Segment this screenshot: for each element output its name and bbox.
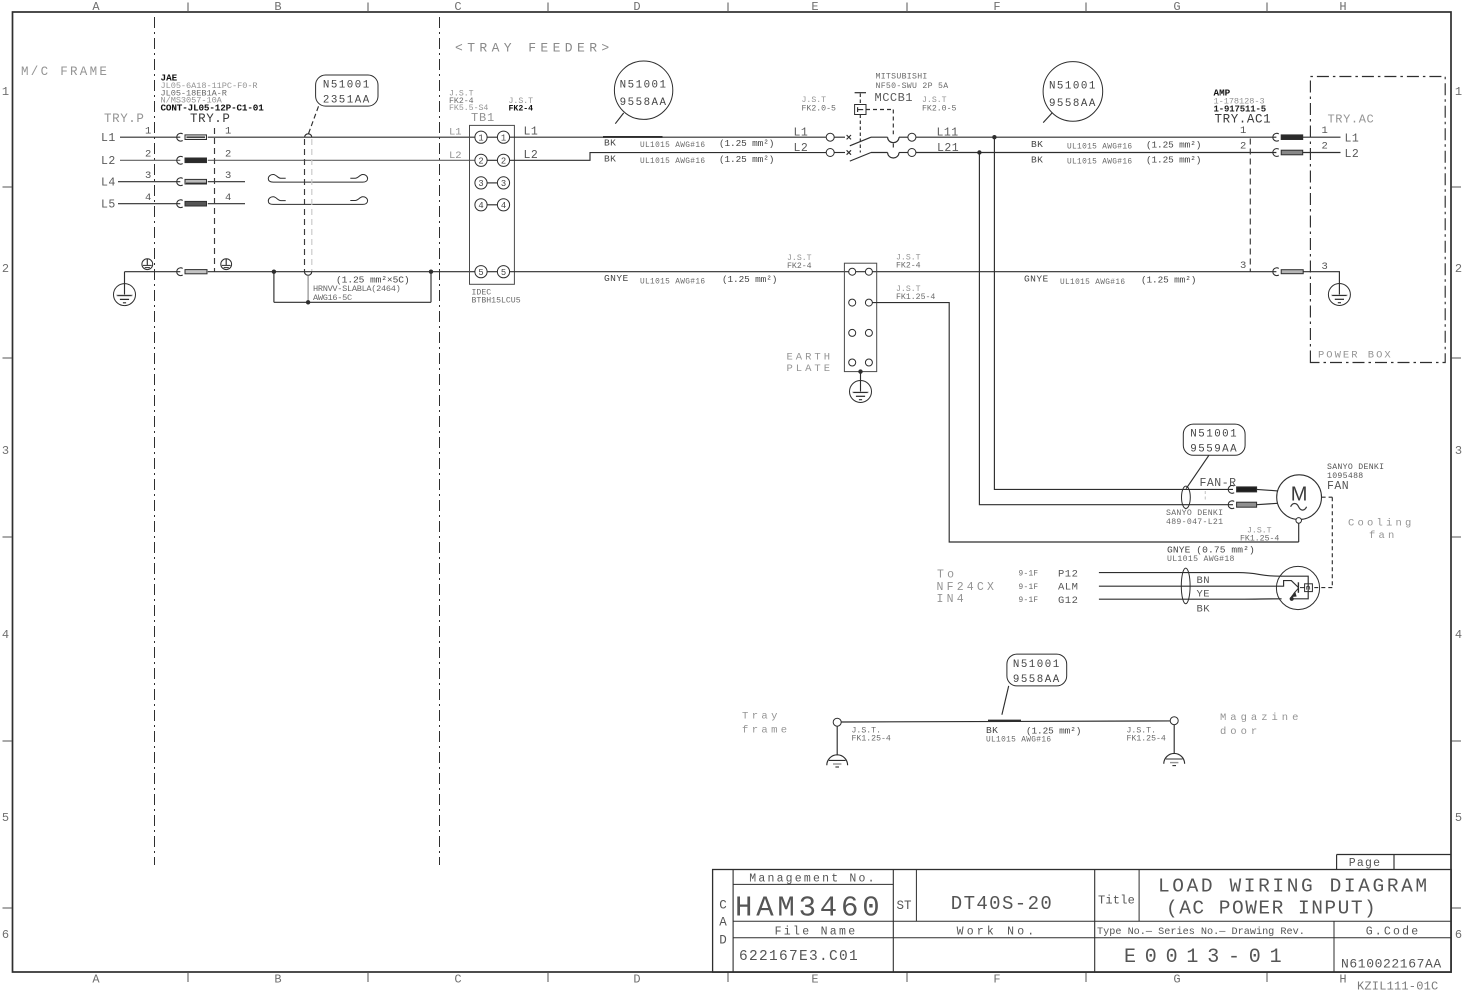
svg-text:G12: G12 [1058,595,1078,607]
svg-text:BK: BK [1031,139,1043,150]
svg-text:Management No.: Management No. [749,872,876,885]
svg-text:L1: L1 [524,126,539,139]
svg-text:4: 4 [478,201,483,211]
leader from balloon 2351AA (dashed) [309,106,319,133]
spare wire hook row L5 [268,197,367,205]
svg-text:L2: L2 [449,150,462,162]
svg-text:Type No.— Series No.— Drawing: Type No.— Series No.— Drawing Rev. [1097,926,1305,938]
svg-text:TRY.P: TRY.P [104,112,145,126]
svg-text:(1.25 mm²): (1.25 mm²) [719,138,774,149]
svg-text:PLATE: PLATE [787,363,834,375]
svg-text:BK: BK [604,137,616,148]
svg-text:5: 5 [1455,811,1462,825]
svg-text:1: 1 [225,126,231,138]
bond wire (tray frame to magazine door) [833,718,841,726]
svg-text:M: M [1291,484,1308,506]
svg-text:4: 4 [1455,628,1462,642]
svg-text:frame: frame [742,724,791,736]
svg-text:A: A [92,973,100,987]
svg-text:3: 3 [1455,444,1462,458]
balloon N51001 9558AA (bottom) [1007,654,1067,686]
PE symbol (feeder side) [221,259,232,270]
wire L11 down to FAN-R [994,137,1233,489]
svg-text:3: 3 [1322,261,1328,273]
svg-text:BK: BK [1031,154,1043,165]
svg-text:G.Code: G.Code [1366,925,1421,938]
svg-text:IN4: IN4 [937,593,967,606]
node L21 [977,150,981,154]
connector TRY.P pin E [177,268,183,276]
wire label underline (tray BK) [988,720,1021,722]
svg-text:6: 6 [2,928,9,942]
svg-text:L2: L2 [1345,148,1360,161]
connector TRY.P pin 3 [177,178,183,186]
svg-text:6: 6 [1455,928,1462,942]
TB1 terminal 3 [475,177,487,189]
connector TRY.P pin 2 [177,156,183,164]
svg-text:489-047-L21: 489-047-L21 [1166,518,1223,527]
svg-text:L1: L1 [101,132,116,145]
connector TRY.P pin 4 [177,200,183,208]
wire L21 down to FAN-R [979,153,1233,505]
svg-text:(1.25 mm²): (1.25 mm²) [1146,155,1201,166]
svg-text:FK2-4: FK2-4 [509,105,534,114]
svg-text:F: F [993,0,1000,14]
cable spec label box [273,272,275,303]
svg-text:UL1015 AWG#16: UL1015 AWG#16 [1060,279,1125,287]
svg-text:L11: L11 [937,127,959,140]
svg-text:UL1015 AWG#16: UL1015 AWG#16 [640,278,705,286]
svg-text:9-1F: 9-1F [1019,571,1039,579]
svg-text:GNYE (0.75 mm²): GNYE (0.75 mm²) [1167,544,1255,555]
svg-text:POWER BOX: POWER BOX [1318,350,1393,362]
svg-text:B: B [274,973,281,987]
svg-text:<TRAY FEEDER>: <TRAY FEEDER> [455,41,614,56]
svg-text:G: G [1173,973,1180,987]
svg-text:(AC POWER INPUT): (AC POWER INPUT) [1166,898,1377,920]
svg-text:L1: L1 [794,127,809,140]
svg-text:2351AA: 2351AA [323,94,371,106]
svg-text:L5: L5 [101,199,116,212]
balloon N51001 9559AA [1183,424,1245,455]
svg-text:UL1015 AWG#16: UL1015 AWG#16 [1067,159,1132,167]
svg-text:GNYE: GNYE [604,273,629,284]
cooling fan outline link (dashed) [1322,496,1333,498]
svg-text:C: C [719,898,727,912]
svg-text:FAN: FAN [1327,480,1349,493]
svg-text:YE: YE [1197,588,1211,600]
svg-text:FK1.25-4: FK1.25-4 [852,735,891,744]
connector TRY.AC pin 3 [1273,268,1279,276]
svg-text:2: 2 [1455,262,1462,276]
svg-text:FK1.25-4: FK1.25-4 [896,293,935,302]
svg-text:5: 5 [2,811,9,825]
svg-text:P12: P12 [1058,568,1078,580]
balloon N51001 9558AA [614,61,672,119]
svg-text:Page: Page [1349,857,1381,870]
svg-text:2: 2 [225,149,231,161]
svg-text:ALM: ALM [1058,582,1078,594]
svg-text:1: 1 [2,85,9,99]
svg-text:AWG16-5C: AWG16-5C [313,293,352,303]
svg-text:9-1F: 9-1F [1019,597,1039,605]
svg-text:3: 3 [501,179,506,189]
PE wire TRY.P pin E [125,271,181,273]
svg-text:UL1015 AWG#16: UL1015 AWG#16 [640,142,705,150]
wire label underline (L1 BK) [603,136,663,138]
svg-text:BTBH15LCU5: BTBH15LCU5 [472,297,521,306]
fan alarm sensor (open collector) [1276,566,1319,609]
svg-text:L2: L2 [101,155,116,168]
svg-text:TRY.P: TRY.P [190,112,231,126]
svg-text:UL1015 AWG#16: UL1015 AWG#16 [640,158,705,166]
wire L1 (TB1 to MCCB1) [510,136,827,138]
svg-text:C: C [454,973,461,987]
svg-text:N51001: N51001 [323,80,371,92]
svg-text:H: H [1339,0,1346,14]
svg-text:1: 1 [1455,85,1462,99]
svg-text:NF50-SWU 2P 5A: NF50-SWU 2P 5A [876,82,949,91]
TB1 terminal 4 [475,199,487,211]
svg-text:DT40S-20: DT40S-20 [951,893,1053,915]
TRAY FEEDER boundary (dash-dot) [439,17,441,865]
svg-text:Tray: Tray [742,711,781,723]
svg-text:FK2-4: FK2-4 [896,262,921,271]
svg-text:D: D [633,0,640,14]
harness run (dashed pair) [305,134,312,137]
svg-text:3: 3 [2,444,9,458]
svg-text:1: 1 [145,126,151,138]
svg-text:FK1.25-4: FK1.25-4 [1240,534,1279,543]
breaker MCCB1 pole L1 [826,133,834,141]
title block [1337,854,1452,856]
svg-text:UL1015 AWG#18: UL1015 AWG#18 [1167,555,1235,564]
svg-text:BN: BN [1197,575,1211,587]
svg-text:Work No.: Work No. [957,925,1038,938]
TB1 terminal 2 [475,154,487,166]
svg-text:Cooling: Cooling [1348,518,1415,530]
spare wire hook row L4 [268,174,367,182]
harness oval NF24CX [1181,568,1190,604]
TB1 terminal 5 [475,266,487,278]
svg-text:Magazine: Magazine [1220,712,1302,724]
svg-text:BK: BK [1197,604,1211,616]
svg-text:N51001: N51001 [1190,429,1238,441]
svg-text:(1.25 mm²): (1.25 mm²) [722,274,777,285]
svg-text:9-1F: 9-1F [1019,584,1039,592]
svg-text:N610022167AA: N610022167AA [1341,956,1442,971]
svg-text:fan: fan [1369,530,1398,542]
svg-text:ST: ST [897,899,913,913]
svg-text:L1: L1 [449,127,462,139]
svg-text:1: 1 [478,133,483,143]
svg-text:3: 3 [478,179,483,189]
svg-text:MITSUBISHI: MITSUBISHI [876,73,928,82]
svg-text:E: E [811,973,818,987]
svg-text:3: 3 [145,170,151,182]
svg-text:SANYO DENKI: SANYO DENKI [1166,509,1223,518]
svg-text:1: 1 [1322,125,1328,137]
balloon N51001 2351AA [316,75,378,106]
svg-text:2: 2 [1322,141,1328,153]
svg-text:2: 2 [1240,141,1246,153]
svg-text:3: 3 [225,170,231,182]
ground (tray frame) [836,726,838,755]
svg-text:C: C [454,0,461,14]
svg-text:N51001: N51001 [1013,659,1061,671]
svg-text:F: F [993,973,1000,987]
svg-text:622167E3.C01: 622167E3.C01 [739,949,859,965]
M/C FRAME boundary (dash-dot) [154,17,156,865]
svg-text:BK: BK [604,153,616,164]
TRY.P boundary (dashed) [214,128,216,272]
breaker MCCB1 pole L2 [826,149,834,157]
svg-text:To: To [937,569,957,582]
svg-text:9559AA: 9559AA [1190,444,1238,456]
svg-text:3: 3 [1240,260,1246,272]
svg-text:FK2.0-5: FK2.0-5 [922,105,956,114]
breaker MCCB1 operator [855,92,866,94]
svg-text:M/C FRAME: M/C FRAME [21,65,109,79]
svg-text:SANYO DENKI: SANYO DENKI [1327,463,1384,472]
ground (power box) [1328,284,1350,306]
svg-text:GNYE: GNYE [1024,274,1049,285]
svg-text:UL1015 AWG#16: UL1015 AWG#16 [1067,143,1132,151]
svg-text:4: 4 [145,192,151,204]
svg-text:D: D [633,973,640,987]
TB1 terminal 1 [475,131,487,143]
svg-text:E: E [811,0,818,14]
svg-text:4: 4 [225,192,231,204]
svg-text:L2: L2 [794,142,809,155]
svg-text:A: A [92,0,100,14]
svg-text:2: 2 [478,156,483,166]
connector FAN-R pin 2 [1228,501,1234,509]
svg-text:L21: L21 [937,142,959,155]
wire L2 (TB1 to MCCB1, with jog) [510,153,827,161]
harness oval FAN-R [1182,486,1191,508]
svg-text:KZIL111-01C: KZIL111-01C [1357,980,1438,992]
TRY.AC1 boundary (dashed) [1249,139,1251,272]
svg-text:5: 5 [478,268,483,278]
svg-text:G: G [1173,0,1180,14]
svg-text:UL1015 AWG#16: UL1015 AWG#16 [986,736,1051,744]
ground (machine frame) [124,272,126,284]
connector FAN-R pin 1 [1228,485,1234,493]
svg-text:BK: BK [986,725,998,736]
svg-text:Title: Title [1098,894,1135,908]
wire FK1.25-4 (earth plate to fan) [872,303,1298,542]
svg-text:2: 2 [501,156,506,166]
svg-text:FK2-4: FK2-4 [787,262,812,271]
svg-text:L1: L1 [1345,133,1360,146]
motor FAN (SANYO DENKI 1095488) [1277,475,1322,520]
svg-text:L4: L4 [101,177,116,190]
svg-text:FK2.0-5: FK2.0-5 [802,105,836,114]
svg-text:1: 1 [1240,125,1246,137]
svg-text:E0013-01: E0013-01 [1124,946,1290,969]
svg-text:TRY.AC1: TRY.AC1 [1215,112,1272,126]
svg-text:9558AA: 9558AA [620,97,668,109]
svg-text:D: D [719,933,727,947]
svg-text:MCCB1: MCCB1 [875,91,914,105]
ground (earth plate) [858,369,862,373]
svg-text:LOAD WIRING DIAGRAM: LOAD WIRING DIAGRAM [1158,876,1430,898]
svg-text:FAN-R: FAN-R [1200,477,1237,490]
POWER BOX boundary (dash-dot) [1310,77,1445,363]
svg-text:5: 5 [501,268,506,278]
svg-text:4: 4 [501,201,506,211]
svg-text:TB1: TB1 [471,111,495,125]
svg-text:H: H [1339,973,1346,987]
svg-text:FK1.25-4: FK1.25-4 [1127,735,1166,744]
svg-text:1: 1 [501,133,506,143]
connector TRY.P pin 1 [177,133,183,141]
svg-text:B: B [274,0,281,14]
svg-text:door: door [1220,726,1261,738]
svg-text:2: 2 [2,262,9,276]
svg-text:EARTH: EARTH [787,352,834,364]
svg-text:TRY.AC: TRY.AC [1328,112,1375,126]
wire GNYE (TB1 to earth plate) [510,271,1277,273]
svg-text:4: 4 [2,628,9,642]
svg-text:HAM3460: HAM3460 [735,892,883,925]
svg-text:N51001: N51001 [620,79,668,91]
svg-text:N51001: N51001 [1049,80,1097,92]
svg-text:A: A [719,915,727,929]
svg-text:9558AA: 9558AA [1049,98,1097,110]
svg-text:2: 2 [145,149,151,161]
svg-text:(1.25 mm²): (1.25 mm²) [1141,275,1196,286]
svg-text:(1.25 mm²): (1.25 mm²) [1146,139,1201,150]
balloon N51001 9558AA (right) [1043,62,1103,122]
ground (magazine door) [1173,725,1175,754]
svg-text:(1.25 mm²): (1.25 mm²) [1026,726,1081,737]
svg-text:File Name: File Name [775,925,858,938]
svg-text:9558AA: 9558AA [1013,674,1061,686]
PE symbol (machine side) [142,259,153,270]
svg-text:(1.25 mm²): (1.25 mm²) [719,154,774,165]
